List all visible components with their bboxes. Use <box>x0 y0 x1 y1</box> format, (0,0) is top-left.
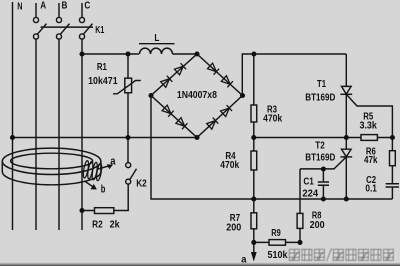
svg-text:3.3k: 3.3k <box>359 120 377 131</box>
svg-text:B: B <box>62 0 68 12</box>
svg-text:b: b <box>101 184 106 196</box>
svg-text:470k: 470k <box>220 160 239 171</box>
svg-text:470k: 470k <box>263 113 282 124</box>
svg-text:C1: C1 <box>303 176 314 187</box>
svg-text:0.1: 0.1 <box>365 183 377 194</box>
svg-text:R2: R2 <box>92 220 103 231</box>
svg-text:K1: K1 <box>95 25 104 36</box>
svg-text:C: C <box>84 0 90 12</box>
svg-text:10k471: 10k471 <box>88 76 118 87</box>
svg-text:R1: R1 <box>97 62 107 73</box>
svg-text:T2: T2 <box>315 141 325 152</box>
svg-text:200: 200 <box>310 220 325 231</box>
svg-text:224: 224 <box>302 189 318 200</box>
svg-text:BT169D: BT169D <box>305 92 335 103</box>
svg-text:K2: K2 <box>136 179 147 190</box>
svg-text:2k: 2k <box>110 220 120 231</box>
svg-text:A: A <box>40 0 46 12</box>
svg-text:R9: R9 <box>271 228 281 239</box>
svg-text:1N4007x8: 1N4007x8 <box>177 90 217 101</box>
svg-text:BT169D: BT169D <box>305 152 335 163</box>
svg-text:N: N <box>17 0 22 12</box>
svg-text:T1: T1 <box>317 79 326 90</box>
svg-text:L: L <box>154 32 159 44</box>
svg-text:a: a <box>110 156 116 168</box>
svg-text:200: 200 <box>226 222 241 233</box>
svg-text:47k: 47k <box>364 155 378 166</box>
svg-text:510k: 510k <box>268 250 288 261</box>
